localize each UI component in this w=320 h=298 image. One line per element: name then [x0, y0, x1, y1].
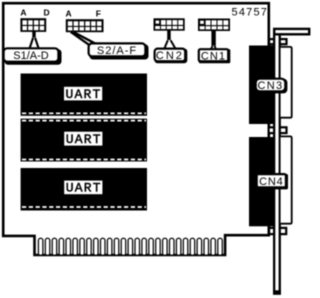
- svg-text:A: A: [66, 8, 72, 18]
- svg-text:A: A: [20, 8, 26, 18]
- svg-text:UART: UART: [66, 181, 102, 196]
- svg-text:CN1: CN1: [201, 50, 226, 62]
- svg-text:UART: UART: [65, 87, 101, 102]
- svg-text:F: F: [96, 8, 101, 18]
- svg-text:CN2: CN2: [156, 50, 184, 62]
- svg-text:S2/A-F: S2/A-F: [97, 45, 137, 57]
- svg-text:UART: UART: [66, 132, 102, 147]
- svg-text:CN3: CN3: [258, 80, 284, 92]
- svg-text:CN4: CN4: [259, 176, 283, 188]
- svg-text:54757: 54757: [232, 6, 269, 18]
- svg-text:S1/A-D: S1/A-D: [13, 50, 49, 62]
- svg-text:D: D: [44, 8, 50, 18]
